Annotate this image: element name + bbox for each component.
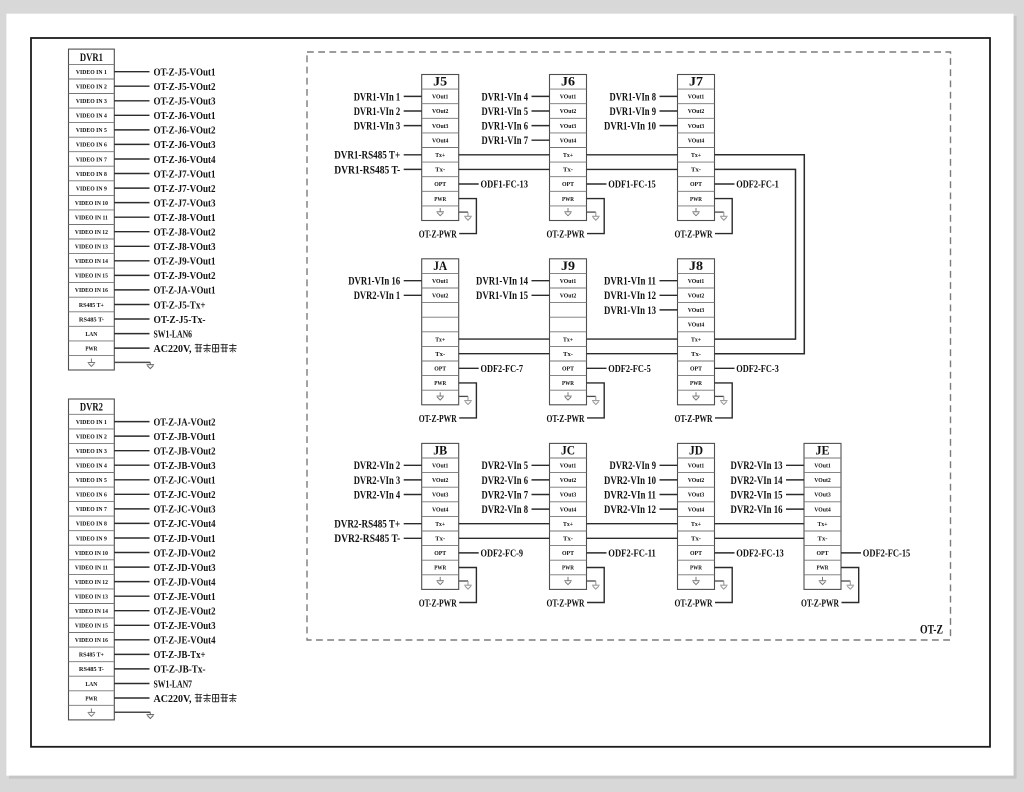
svg-text:DVR2-VIn 1: DVR2-VIn 1 [354, 290, 401, 302]
svg-text:Tx+: Tx+ [435, 336, 445, 343]
svg-text:OT-Z-J7-VOut3: OT-Z-J7-VOut3 [154, 198, 216, 209]
svg-text:OPT: OPT [434, 181, 447, 188]
svg-text:VIDEO IN 15: VIDEO IN 15 [75, 623, 108, 630]
svg-text:OT-Z-JC-VOut4: OT-Z-JC-VOut4 [154, 519, 217, 530]
svg-text:J8: J8 [689, 258, 704, 273]
svg-text:VOut2: VOut2 [432, 477, 449, 484]
svg-text:ODF2-FC-13: ODF2-FC-13 [736, 549, 784, 560]
svg-text:DVR2-VIn 3: DVR2-VIn 3 [354, 475, 401, 487]
svg-text:VOut1: VOut1 [560, 94, 577, 101]
svg-text:VOut4: VOut4 [560, 137, 577, 144]
svg-text:VIDEO IN 8: VIDEO IN 8 [76, 521, 107, 528]
svg-text:DVR1-VIn 3: DVR1-VIn 3 [354, 121, 401, 133]
svg-text:VOut3: VOut3 [688, 123, 705, 130]
svg-text:PWR: PWR [562, 565, 574, 572]
svg-text:VOut2: VOut2 [432, 293, 449, 300]
svg-text:Tx-: Tx- [691, 351, 701, 358]
svg-text:VOut2: VOut2 [432, 108, 449, 115]
svg-text:Tx+: Tx+ [563, 521, 573, 528]
svg-text:VOut1: VOut1 [688, 463, 705, 470]
svg-text:OT-Z: OT-Z [920, 623, 943, 637]
svg-text:VOut2: VOut2 [814, 477, 831, 484]
svg-text:PWR: PWR [434, 565, 446, 572]
svg-text:OPT: OPT [817, 550, 830, 557]
svg-text:OT-Z-JC-VOut2: OT-Z-JC-VOut2 [154, 490, 216, 501]
svg-text:DVR2-VIn 14: DVR2-VIn 14 [731, 475, 783, 487]
svg-text:VIDEO IN 11: VIDEO IN 11 [75, 564, 108, 571]
svg-text:VIDEO IN 12: VIDEO IN 12 [75, 229, 108, 236]
svg-text:VOut3: VOut3 [814, 492, 831, 499]
svg-text:OT-Z-JE-VOut4: OT-Z-JE-VOut4 [154, 636, 217, 647]
svg-text:DVR2-VIn 11: DVR2-VIn 11 [604, 489, 656, 501]
svg-text:OT-Z-JE-VOut3: OT-Z-JE-VOut3 [154, 621, 216, 632]
svg-text:DVR2: DVR2 [80, 402, 103, 414]
svg-text:Tx-: Tx- [563, 351, 573, 358]
svg-text:RS485 T+: RS485 T+ [79, 652, 104, 659]
svg-text:Tx+: Tx+ [435, 521, 445, 528]
svg-text:OT-Z-J6-VOut1: OT-Z-J6-VOut1 [154, 111, 216, 122]
svg-text:SW1-LAN6: SW1-LAN6 [154, 329, 193, 340]
svg-text:VOut2: VOut2 [688, 293, 705, 300]
svg-text:VOut1: VOut1 [432, 278, 449, 285]
svg-text:DVR2-VIn 13: DVR2-VIn 13 [731, 460, 783, 472]
svg-text:VOut2: VOut2 [688, 477, 705, 484]
svg-text:OT-Z-JD-VOut1: OT-Z-JD-VOut1 [154, 534, 216, 545]
svg-text:VIDEO IN 7: VIDEO IN 7 [76, 156, 108, 163]
svg-text:VOut1: VOut1 [688, 94, 705, 101]
svg-text:VIDEO IN 7: VIDEO IN 7 [76, 506, 108, 513]
svg-text:DVR1-VIn 14: DVR1-VIn 14 [476, 276, 528, 288]
svg-text:VOut1: VOut1 [814, 463, 831, 470]
svg-text:PWR: PWR [85, 695, 97, 702]
svg-text:Tx+: Tx+ [563, 336, 573, 343]
svg-text:OT-Z-PWR: OT-Z-PWR [547, 414, 585, 425]
svg-text:OT-Z-JD-VOut4: OT-Z-JD-VOut4 [154, 577, 217, 588]
svg-text:OPT: OPT [690, 181, 703, 188]
svg-text:DVR2-VIn 9: DVR2-VIn 9 [610, 460, 657, 472]
svg-text:VOut2: VOut2 [560, 293, 577, 300]
svg-text:VIDEO IN 12: VIDEO IN 12 [75, 579, 108, 586]
svg-text:DVR1-VIn 1: DVR1-VIn 1 [354, 91, 401, 103]
svg-text:DVR1-VIn 13: DVR1-VIn 13 [604, 305, 656, 317]
svg-text:VIDEO IN 4: VIDEO IN 4 [76, 463, 108, 470]
svg-text:LAN: LAN [85, 331, 97, 338]
svg-text:Tx-: Tx- [563, 536, 573, 543]
svg-text:DVR2-RS485 T+: DVR2-RS485 T+ [334, 519, 400, 531]
svg-text:VOut4: VOut4 [432, 506, 449, 513]
svg-text:ODF1-FC-15: ODF1-FC-15 [608, 180, 656, 191]
svg-text:J5: J5 [433, 74, 448, 89]
svg-text:Tx+: Tx+ [691, 521, 701, 528]
svg-text:VOut3: VOut3 [688, 492, 705, 499]
svg-text:VIDEO IN 10: VIDEO IN 10 [75, 550, 108, 557]
svg-text:OPT: OPT [690, 366, 703, 373]
svg-text:VIDEO IN 16: VIDEO IN 16 [75, 637, 109, 644]
svg-text:OT-Z-PWR: OT-Z-PWR [675, 414, 713, 425]
svg-text:RS485 T+: RS485 T+ [79, 302, 104, 309]
svg-text:Tx+: Tx+ [818, 521, 828, 528]
svg-text:OT-Z-J6-VOut3: OT-Z-J6-VOut3 [154, 140, 216, 151]
svg-text:VIDEO IN 5: VIDEO IN 5 [76, 127, 107, 134]
svg-text:Tx-: Tx- [691, 167, 701, 174]
svg-text:OT-Z-JA-VOut2: OT-Z-JA-VOut2 [154, 417, 216, 428]
svg-text:OT-Z-JB-VOut1: OT-Z-JB-VOut1 [154, 432, 216, 443]
svg-text:Tx+: Tx+ [435, 152, 445, 159]
svg-text:VIDEO IN 5: VIDEO IN 5 [76, 477, 107, 484]
svg-text:VIDEO IN 10: VIDEO IN 10 [75, 200, 108, 207]
svg-text:OT-Z-PWR: OT-Z-PWR [675, 598, 713, 609]
svg-text:OT-Z-JB-Tx-: OT-Z-JB-Tx- [154, 665, 206, 676]
svg-text:OT-Z-PWR: OT-Z-PWR [419, 230, 457, 241]
svg-text:VOut4: VOut4 [432, 137, 449, 144]
svg-text:VIDEO IN 9: VIDEO IN 9 [76, 185, 107, 192]
svg-text:OT-Z-JA-VOut1: OT-Z-JA-VOut1 [154, 286, 216, 297]
svg-text:OT-Z-PWR: OT-Z-PWR [801, 598, 839, 609]
svg-text:PWR: PWR [562, 380, 574, 387]
svg-text:VIDEO IN 2: VIDEO IN 2 [76, 84, 107, 91]
svg-text:PWR: PWR [690, 565, 702, 572]
svg-text:VOut1: VOut1 [560, 463, 577, 470]
svg-text:SW1-LAN7: SW1-LAN7 [154, 679, 193, 690]
svg-text:PWR: PWR [85, 345, 97, 352]
svg-text:DVR2-VIn 2: DVR2-VIn 2 [354, 460, 401, 472]
svg-text:VIDEO IN 14: VIDEO IN 14 [75, 608, 109, 615]
svg-text:OT-Z-J9-VOut1: OT-Z-J9-VOut1 [154, 257, 216, 268]
svg-text:VIDEO IN 14: VIDEO IN 14 [75, 258, 109, 265]
svg-text:OT-Z-PWR: OT-Z-PWR [675, 230, 713, 241]
svg-text:DVR1-VIn 12: DVR1-VIn 12 [604, 290, 656, 302]
svg-text:DVR1-VIn 11: DVR1-VIn 11 [604, 276, 656, 288]
svg-text:VOut1: VOut1 [432, 463, 449, 470]
svg-text:DVR2-VIn 7: DVR2-VIn 7 [482, 489, 529, 501]
svg-text:VIDEO IN 9: VIDEO IN 9 [76, 535, 107, 542]
svg-text:OT-Z-JB-VOut2: OT-Z-JB-VOut2 [154, 447, 216, 458]
svg-text:VOut3: VOut3 [432, 492, 449, 499]
svg-text:OT-Z-JE-VOut2: OT-Z-JE-VOut2 [154, 607, 216, 618]
svg-text:VOut3: VOut3 [432, 123, 449, 130]
svg-text:VOut1: VOut1 [432, 94, 449, 101]
svg-text:DVR1-VIn 16: DVR1-VIn 16 [348, 276, 400, 288]
svg-text:OT-Z-J8-VOut2: OT-Z-J8-VOut2 [154, 228, 216, 239]
svg-text:VIDEO IN 11: VIDEO IN 11 [75, 215, 108, 222]
svg-text:DVR1-RS485 T+: DVR1-RS485 T+ [334, 150, 400, 162]
svg-text:J6: J6 [561, 74, 576, 89]
svg-text:VIDEO IN 13: VIDEO IN 13 [75, 594, 108, 601]
svg-text:OT-Z-J9-VOut2: OT-Z-J9-VOut2 [154, 271, 216, 282]
svg-text:OT-Z-JC-VOut3: OT-Z-JC-VOut3 [154, 505, 216, 516]
svg-text:PWR: PWR [434, 380, 446, 387]
svg-text:ODF2-FC-9: ODF2-FC-9 [481, 549, 524, 560]
svg-text:Tx-: Tx- [435, 167, 445, 174]
svg-text:Tx-: Tx- [818, 536, 828, 543]
svg-text:VOut1: VOut1 [560, 278, 577, 285]
svg-text:OT-Z-PWR: OT-Z-PWR [547, 230, 585, 241]
svg-text:Tx+: Tx+ [691, 152, 701, 159]
svg-text:VIDEO IN 8: VIDEO IN 8 [76, 171, 107, 178]
svg-text:OPT: OPT [562, 366, 575, 373]
svg-text:DVR2-VIn 15: DVR2-VIn 15 [731, 489, 783, 501]
svg-text:ODF2-FC-7: ODF2-FC-7 [481, 364, 524, 375]
svg-text:VIDEO IN 6: VIDEO IN 6 [76, 492, 108, 499]
svg-text:ODF2-FC-11: ODF2-FC-11 [608, 549, 656, 560]
svg-text:JD: JD [689, 443, 703, 458]
svg-text:J9: J9 [561, 258, 576, 273]
svg-text:OT-Z-PWR: OT-Z-PWR [419, 598, 457, 609]
svg-text:DVR2-VIn 6: DVR2-VIn 6 [482, 475, 529, 487]
svg-text:VOut2: VOut2 [688, 108, 705, 115]
svg-text:DVR1-VIn 4: DVR1-VIn 4 [482, 91, 529, 103]
svg-text:PWR: PWR [690, 380, 702, 387]
svg-text:DVR1-VIn 6: DVR1-VIn 6 [482, 121, 529, 133]
svg-text:OT-Z-JB-VOut3: OT-Z-JB-VOut3 [154, 461, 216, 472]
svg-text:DVR2-VIn 8: DVR2-VIn 8 [482, 504, 529, 516]
svg-text:VIDEO IN 13: VIDEO IN 13 [75, 244, 108, 251]
svg-text:VIDEO IN 1: VIDEO IN 1 [76, 69, 107, 76]
svg-text:DVR2-VIn 16: DVR2-VIn 16 [731, 504, 783, 516]
svg-text:PWR: PWR [817, 565, 829, 572]
svg-text:PWR: PWR [690, 196, 702, 203]
svg-text:OT-Z-J5-VOut2: OT-Z-J5-VOut2 [154, 82, 216, 93]
svg-text:DVR2-VIn 4: DVR2-VIn 4 [354, 489, 401, 501]
svg-text:OT-Z-PWR: OT-Z-PWR [419, 414, 457, 425]
svg-text:AC220V,: AC220V, [154, 343, 192, 355]
svg-text:DVR2-RS485 T-: DVR2-RS485 T- [334, 533, 400, 545]
svg-text:OT-Z-JB-Tx+: OT-Z-JB-Tx+ [154, 650, 206, 661]
svg-text:DVR1-VIn 5: DVR1-VIn 5 [482, 106, 529, 118]
svg-text:VIDEO IN 1: VIDEO IN 1 [76, 419, 107, 426]
svg-text:Tx-: Tx- [691, 536, 701, 543]
svg-text:Tx-: Tx- [435, 536, 445, 543]
svg-text:VOut4: VOut4 [688, 322, 705, 329]
svg-text:OT-Z-JE-VOut1: OT-Z-JE-VOut1 [154, 592, 216, 603]
svg-text:ODF2-FC-1: ODF2-FC-1 [736, 180, 779, 191]
svg-text:VOut2: VOut2 [560, 108, 577, 115]
svg-text:OT-Z-J5-Tx-: OT-Z-J5-Tx- [154, 315, 206, 326]
svg-text:JC: JC [561, 443, 575, 458]
svg-text:VIDEO IN 6: VIDEO IN 6 [76, 142, 108, 149]
svg-text:OT-Z-J7-VOut1: OT-Z-J7-VOut1 [154, 169, 216, 180]
svg-text:OT-Z-JC-VOut1: OT-Z-JC-VOut1 [154, 476, 216, 487]
svg-text:JB: JB [433, 443, 447, 458]
svg-text:RS485 T-: RS485 T- [79, 666, 104, 673]
svg-text:OT-Z-J8-VOut1: OT-Z-J8-VOut1 [154, 213, 216, 224]
svg-text:DVR1-VIn 9: DVR1-VIn 9 [610, 106, 657, 118]
svg-text:ODF2-FC-5: ODF2-FC-5 [608, 364, 651, 375]
svg-text:OT-Z-J6-VOut4: OT-Z-J6-VOut4 [154, 155, 217, 166]
svg-text:OT-Z-J5-Tx+: OT-Z-J5-Tx+ [154, 300, 206, 311]
svg-text:DVR1-VIn 15: DVR1-VIn 15 [476, 290, 528, 302]
svg-text:VIDEO IN 2: VIDEO IN 2 [76, 433, 107, 440]
svg-text:DVR1-VIn 7: DVR1-VIn 7 [482, 135, 529, 147]
svg-text:OPT: OPT [562, 181, 575, 188]
svg-text:VIDEO IN 16: VIDEO IN 16 [75, 287, 109, 294]
svg-text:JA: JA [433, 258, 448, 273]
svg-text:PWR: PWR [434, 196, 446, 203]
svg-text:OT-Z-J7-VOut2: OT-Z-J7-VOut2 [154, 184, 216, 195]
svg-text:DVR2-VIn 10: DVR2-VIn 10 [604, 475, 656, 487]
svg-text:VOut2: VOut2 [560, 477, 577, 484]
svg-text:VIDEO IN 3: VIDEO IN 3 [76, 448, 107, 455]
svg-text:VOut4: VOut4 [560, 506, 577, 513]
svg-text:DVR1: DVR1 [80, 52, 103, 64]
svg-text:RS485 T-: RS485 T- [79, 316, 104, 323]
svg-text:DVR1-VIn 10: DVR1-VIn 10 [604, 121, 656, 133]
svg-text:OT-Z-JD-VOut2: OT-Z-JD-VOut2 [154, 548, 216, 559]
svg-text:Tx-: Tx- [435, 351, 445, 358]
svg-text:VOut3: VOut3 [688, 307, 705, 314]
svg-text:OPT: OPT [562, 550, 575, 557]
svg-text:VIDEO IN 3: VIDEO IN 3 [76, 98, 107, 105]
svg-text:VIDEO IN 4: VIDEO IN 4 [76, 113, 108, 120]
svg-text:VOut3: VOut3 [560, 123, 577, 130]
svg-text:VOut4: VOut4 [688, 506, 705, 513]
svg-text:JE: JE [816, 443, 830, 458]
svg-text:Tx-: Tx- [563, 167, 573, 174]
svg-text:VOut1: VOut1 [688, 278, 705, 285]
svg-text:J7: J7 [689, 74, 704, 89]
svg-text:OPT: OPT [434, 366, 447, 373]
svg-text:OT-Z-JD-VOut3: OT-Z-JD-VOut3 [154, 563, 216, 574]
svg-text:AC220V,: AC220V, [154, 693, 192, 705]
svg-text:Tx+: Tx+ [691, 336, 701, 343]
svg-text:VOut4: VOut4 [814, 506, 831, 513]
svg-text:DVR2-VIn 12: DVR2-VIn 12 [604, 504, 656, 516]
svg-text:ODF1-FC-13: ODF1-FC-13 [481, 180, 529, 191]
svg-text:OT-Z-PWR: OT-Z-PWR [547, 598, 585, 609]
svg-text:DVR1-VIn 8: DVR1-VIn 8 [610, 91, 657, 103]
svg-text:Tx+: Tx+ [563, 152, 573, 159]
svg-text:VOut4: VOut4 [688, 137, 705, 144]
svg-text:VOut3: VOut3 [560, 492, 577, 499]
svg-text:OT-Z-J5-VOut1: OT-Z-J5-VOut1 [154, 68, 216, 79]
svg-text:DVR1-RS485 T-: DVR1-RS485 T- [334, 164, 400, 176]
svg-text:ODF2-FC-15: ODF2-FC-15 [863, 549, 911, 560]
svg-text:LAN: LAN [85, 681, 97, 688]
svg-text:DVR1-VIn 2: DVR1-VIn 2 [354, 106, 401, 118]
svg-text:OPT: OPT [434, 550, 447, 557]
svg-text:DVR2-VIn 5: DVR2-VIn 5 [482, 460, 529, 472]
svg-text:OT-Z-J8-VOut3: OT-Z-J8-VOut3 [154, 242, 216, 253]
svg-text:OPT: OPT [690, 550, 703, 557]
svg-text:VIDEO IN 15: VIDEO IN 15 [75, 273, 108, 280]
svg-text:OT-Z-J6-VOut2: OT-Z-J6-VOut2 [154, 126, 216, 137]
svg-text:ODF2-FC-3: ODF2-FC-3 [736, 364, 779, 375]
svg-text:PWR: PWR [562, 196, 574, 203]
svg-text:OT-Z-J5-VOut3: OT-Z-J5-VOut3 [154, 97, 216, 108]
